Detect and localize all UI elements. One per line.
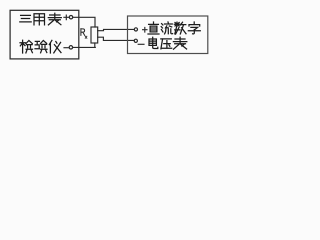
resistor R body xyxy=(91,27,98,43)
label 字 xyxy=(188,22,200,34)
label 流 xyxy=(161,22,172,34)
minus sign (right box) xyxy=(138,43,144,45)
label 电 xyxy=(149,37,158,48)
wire: resistor bottom lead xyxy=(94,43,96,47)
label 验 xyxy=(35,41,47,53)
label 压 xyxy=(161,39,172,49)
instrument box: DC digital voltmeter (直流数字电压表) xyxy=(128,16,208,54)
label 直 xyxy=(148,22,159,34)
plus sign (left box + terminal label) xyxy=(64,15,69,20)
label 仪 xyxy=(49,40,61,53)
instrument box: multimeter calibrator (三用表检验仪) xyxy=(10,10,79,59)
- terminal circle (left box) xyxy=(69,46,72,49)
wire: resistor bottom tap to voltmeter - xyxy=(98,37,135,40)
label 数 xyxy=(174,22,186,34)
+ terminal circle (right box) xyxy=(134,28,137,31)
label 检 xyxy=(20,40,33,53)
label subscript x xyxy=(85,36,87,38)
label 表 xyxy=(48,13,61,25)
wire: resistor top tap to voltmeter + xyxy=(98,29,135,30)
plus sign (right box) xyxy=(143,27,147,32)
wire: - terminal to resistor bottom xyxy=(73,46,96,48)
- terminal circle (right box) xyxy=(134,39,137,42)
label R xyxy=(81,29,85,36)
label 表 (voltmeter) xyxy=(173,37,186,49)
label 用 xyxy=(34,14,45,25)
minus sign (left box - terminal label) xyxy=(64,47,69,49)
wire: + terminal to resistor top xyxy=(73,17,95,27)
label 三 xyxy=(20,15,31,22)
+ terminal circle (left box) xyxy=(69,16,72,19)
